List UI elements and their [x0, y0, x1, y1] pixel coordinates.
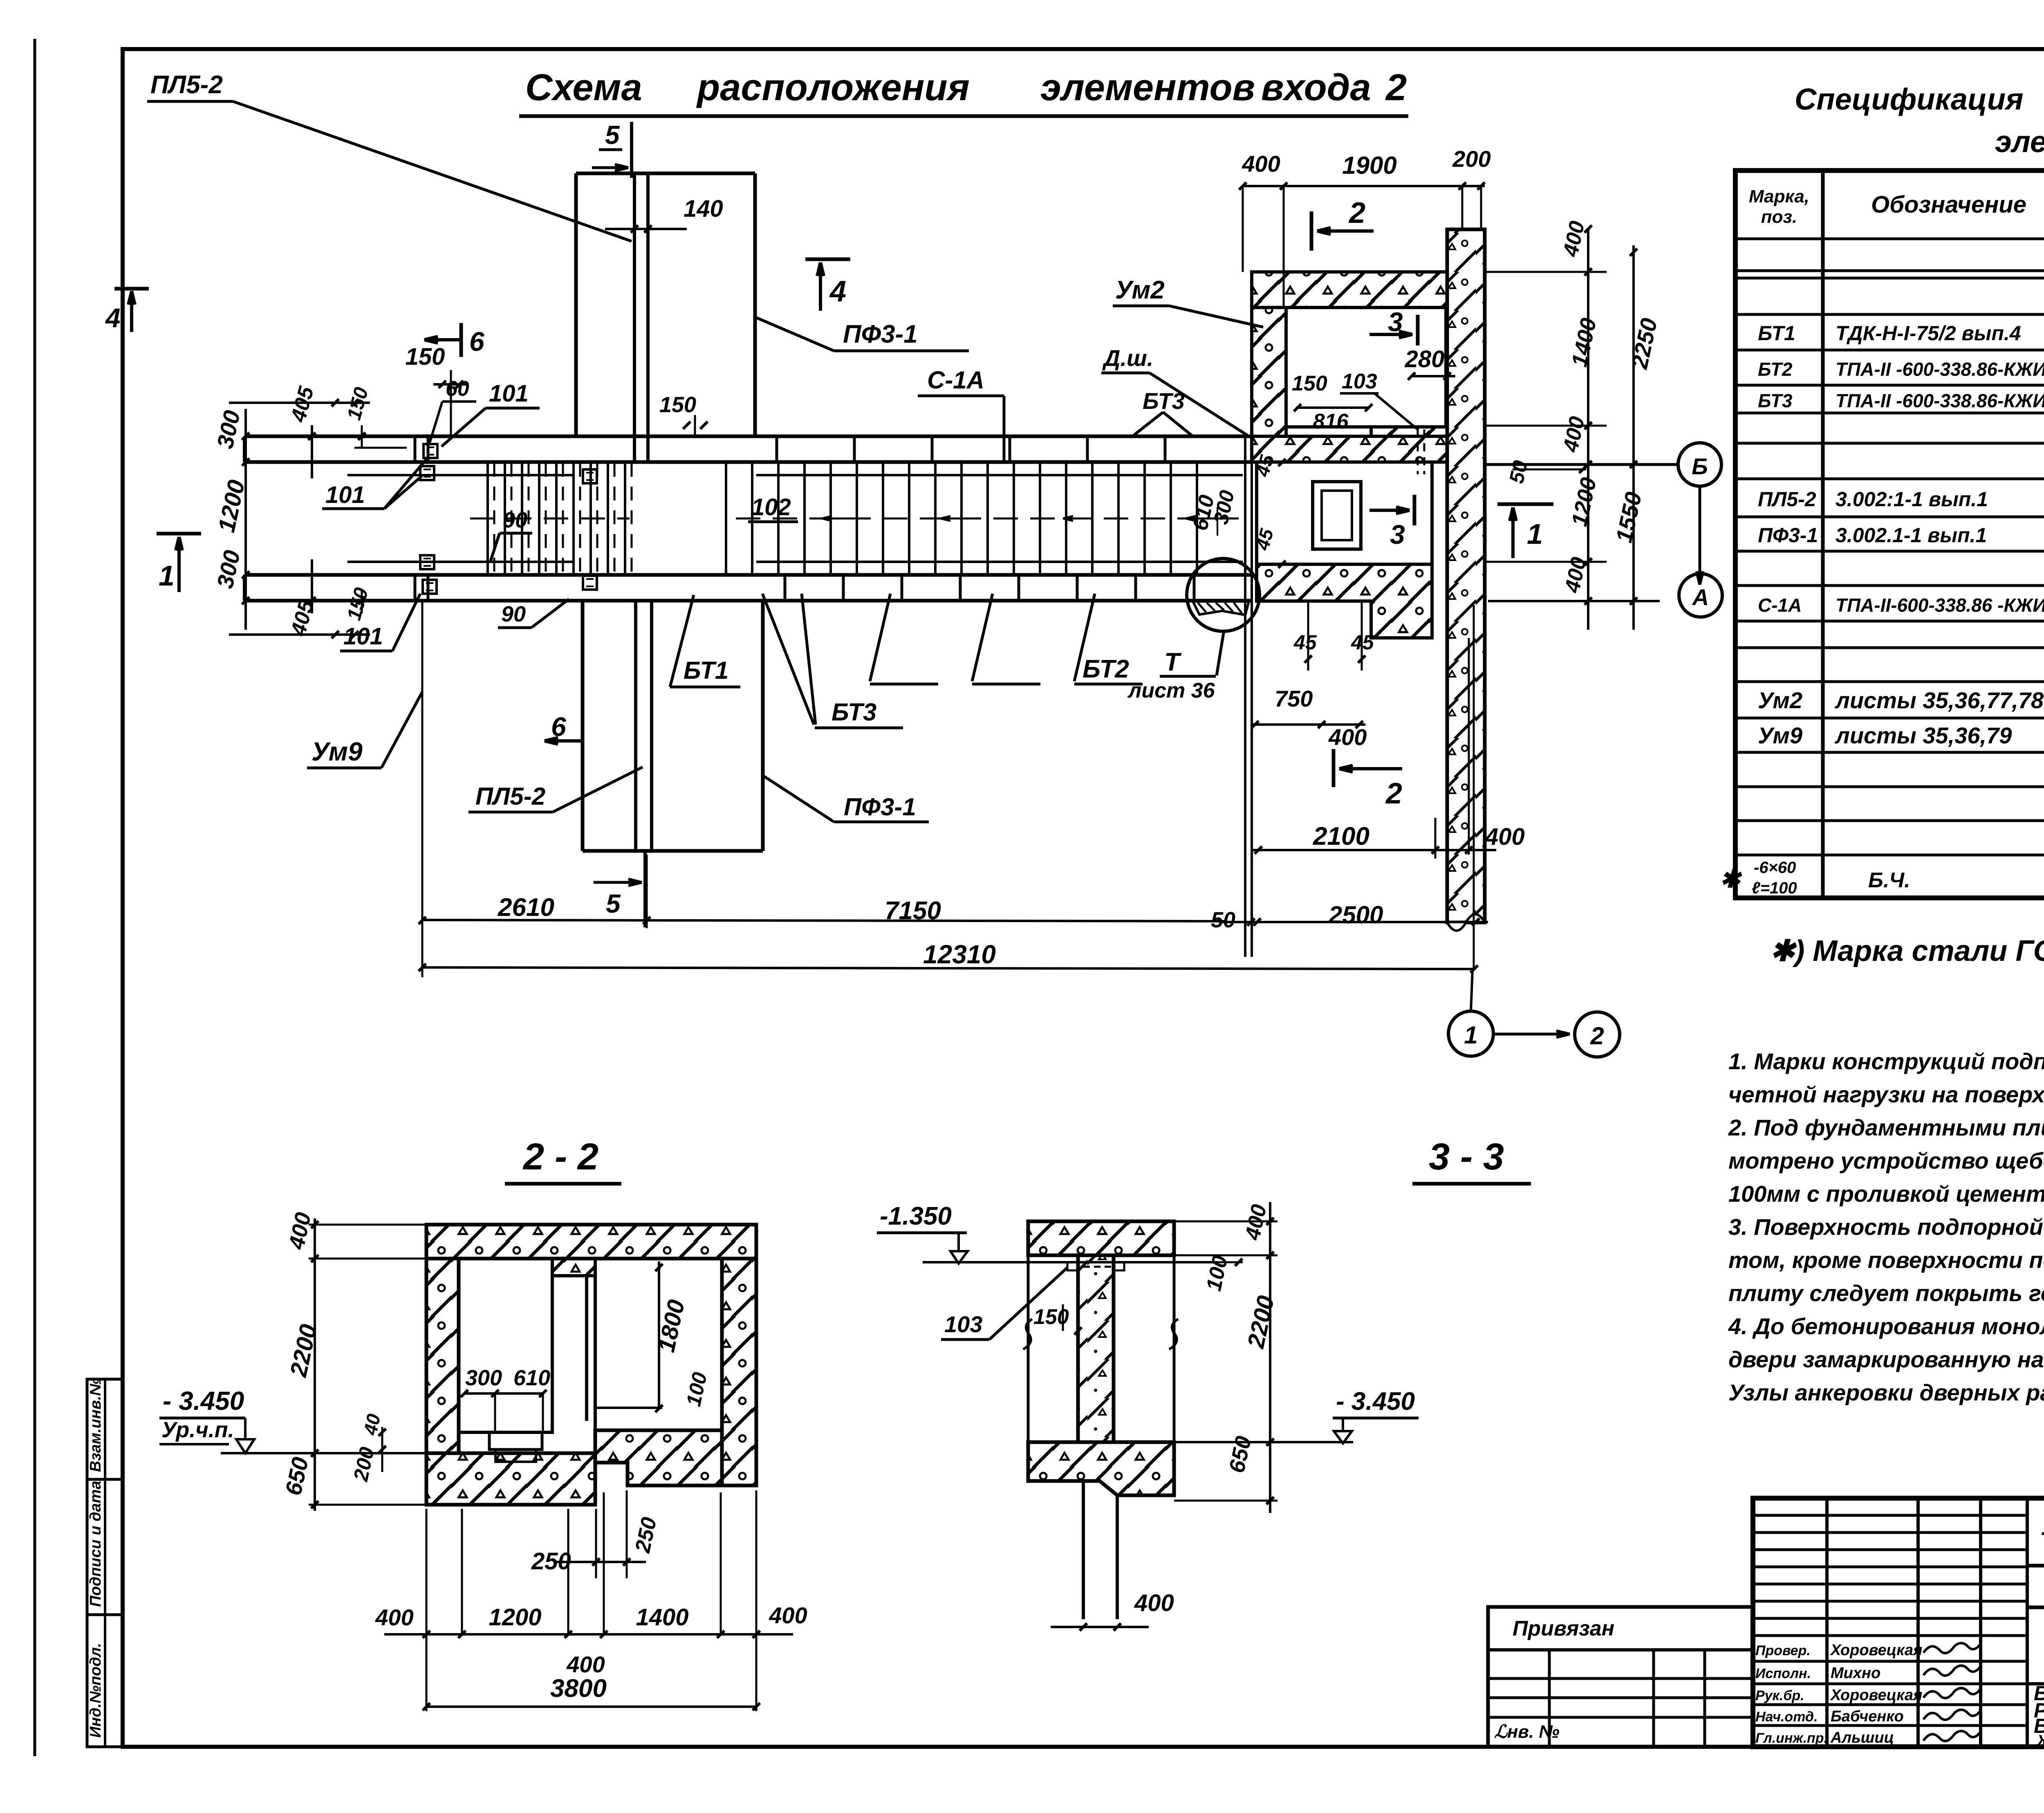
svg-text:Гл.инж.пр.: Гл.инж.пр. [1755, 1730, 1828, 1746]
svg-text:БТ3: БТ3 [831, 698, 876, 726]
2-2 bottom right band [595, 1430, 722, 1485]
svg-text:5: 5 [606, 889, 621, 918]
svg-text:280: 280 [1405, 346, 1445, 372]
svg-text:300: 300 [465, 1366, 502, 1390]
svg-text:12310: 12310 [923, 940, 996, 969]
svg-text:листы 35,36,79: листы 35,36,79 [1834, 723, 2012, 748]
svg-text:мотрено устройство щебеночной: мотрено устройство щебеночной подготовки… [1728, 1148, 2044, 1174]
section mark 4 left [114, 287, 149, 291]
3-3 side lines [1027, 1255, 1030, 1442]
section mark 3 top [1416, 315, 1420, 346]
svg-text:1: 1 [159, 560, 175, 592]
section mark 2 bottom [1332, 749, 1336, 787]
svg-text:Привязан: Привязан [1513, 1617, 1614, 1640]
svg-text:400: 400 [1242, 151, 1280, 177]
detail circle T [1187, 559, 1260, 631]
svg-text:400: 400 [769, 1602, 807, 1628]
3-3 top band [1028, 1221, 1174, 1255]
svg-text:50: 50 [1505, 458, 1532, 485]
svg-text:400: 400 [566, 1651, 605, 1677]
svg-text:140: 140 [684, 195, 723, 222]
section mark 2 top [1310, 211, 1313, 251]
3-3 bottom band [1028, 1442, 1174, 1495]
svg-text:400: 400 [1485, 823, 1525, 850]
svg-text:С-1А: С-1А [927, 366, 984, 394]
svg-text:ТП А-II -600- 338.86: ТП А-II -600- 338.86 [2040, 1528, 2044, 1554]
3-3 connector plates [1067, 1262, 1078, 1270]
2-2 right room [595, 1259, 722, 1430]
svg-text:103: 103 [944, 1311, 982, 1337]
dim line 400-1400-400-1200-400 [1587, 229, 1589, 630]
dim 400/1900/200 top [1243, 185, 1485, 187]
2-2 dim 1800 [658, 1261, 660, 1409]
Ум2 top wall [1252, 272, 1447, 307]
paper left edge line [34, 39, 36, 1756]
svg-text:БТ3: БТ3 [1758, 390, 1793, 411]
svg-text:4. До бетонирования монолитны: 4. До бетонирования монолитных стен зало… [1728, 1313, 2044, 1339]
2-2 left room [459, 1259, 552, 1432]
svg-text:750: 750 [1275, 686, 1313, 711]
svg-text:ТПА-II -600-338.86-КЖИ: ТПА-II -600-338.86-КЖИ [1836, 390, 2044, 411]
walkway top wall strip [244, 435, 1252, 438]
Ум2 wall over walkway [1252, 436, 1447, 462]
svg-text:ж.б. конструкциях: ж.б. конструкциях [2037, 1728, 2044, 1749]
svg-text:Исполн.: Исполн. [1755, 1666, 1811, 1681]
ПЛ5-2 plate edge lower [634, 601, 637, 851]
svg-text:2610: 2610 [498, 893, 554, 922]
5 section bottom [643, 853, 647, 927]
svg-text:лист 36: лист 36 [1127, 679, 1215, 702]
svg-text:Ум2: Ум2 [1115, 276, 1165, 304]
wall break squiggle [1447, 914, 1485, 931]
svg-text:Схема: Схема [525, 67, 642, 108]
svg-text:60: 60 [446, 377, 469, 401]
section mark 6 upper [459, 323, 463, 357]
expansion joint Д.ш. [1244, 436, 1246, 957]
svg-text:101: 101 [489, 380, 529, 407]
svg-text:102: 102 [751, 494, 791, 521]
Ум2 bottom wall [1257, 564, 1432, 638]
svg-text:Ур.ч.п.: Ур.ч.п. [161, 1418, 234, 1442]
svg-text:1400: 1400 [636, 1604, 688, 1631]
svg-text:3 - 3: 3 - 3 [1429, 1136, 1504, 1178]
svg-text:Альшиц: Альшиц [1830, 1729, 1894, 1746]
2-2 bottom left band [426, 1453, 595, 1505]
dim 2610 7150 [422, 920, 1226, 921]
svg-text:Узлы анкеровки дверных рам: Узлы анкеровки дверных рам см. листы 58÷… [1728, 1380, 2044, 1405]
svg-text:3.002:1-1 вып.1: 3.002:1-1 вып.1 [1836, 488, 1988, 511]
svg-text:150: 150 [406, 343, 445, 370]
svg-text:БТ3: БТ3 [1143, 388, 1185, 414]
svg-text:Инд.№подл.: Инд.№подл. [87, 1643, 104, 1738]
svg-text:Д.ш.: Д.ш. [1102, 345, 1153, 371]
2-2 dim 3800 [426, 1705, 756, 1708]
svg-text:БТ2: БТ2 [1758, 359, 1793, 380]
svg-text:1200: 1200 [489, 1604, 541, 1631]
2-2 right wall [722, 1259, 756, 1485]
title underline [519, 114, 1408, 118]
svg-text:Рук.бр.: Рук.бр. [1755, 1688, 1804, 1703]
svg-text:3800: 3800 [550, 1674, 607, 1703]
section mark 4 right [805, 258, 850, 261]
svg-text:7150: 7150 [885, 897, 941, 925]
svg-text:Нач.отд.: Нач.отд. [1755, 1709, 1818, 1725]
svg-text:Хоровецкая: Хоровецкая [1830, 1642, 1922, 1659]
svg-text:45: 45 [1293, 631, 1317, 654]
title block [1753, 1498, 2044, 1747]
2-2 partition lines [552, 1274, 587, 1277]
svg-text:БТ1: БТ1 [1758, 322, 1795, 345]
2-2 left wall [426, 1259, 459, 1453]
svg-text:Т: Т [1164, 648, 1182, 676]
svg-text:3. Поверхность подпорной стенк: 3. Поверхность подпорной стенки, соприка… [1728, 1214, 2044, 1240]
svg-text:2 - 2: 2 - 2 [522, 1136, 598, 1178]
svg-text:БТ2: БТ2 [1083, 655, 1129, 683]
svg-text:✱: ✱ [1720, 865, 1742, 893]
ПЛ5-2 plate edge [633, 173, 636, 462]
svg-text:103: 103 [1342, 370, 1377, 393]
svg-text:ℒнв. №: ℒнв. № [1494, 1722, 1560, 1742]
svg-text:400: 400 [1328, 724, 1367, 750]
dim 12310 [422, 967, 1475, 969]
lower corridor walls [1255, 462, 1258, 564]
svg-text:С-1А: С-1А [1758, 595, 1802, 616]
svg-text:расположения: расположения [696, 67, 970, 108]
2-2 bottom dims [384, 1633, 793, 1636]
svg-text:90: 90 [503, 508, 527, 532]
svg-text:2100: 2100 [1313, 822, 1369, 850]
stair flight 2 steps [725, 463, 727, 574]
2-2 partition step [552, 1259, 595, 1276]
svg-text:А: А [1692, 584, 1709, 610]
svg-text:ТПА-II-600-338.86 -КЖИ: ТПА-II-600-338.86 -КЖИ [1836, 595, 2044, 616]
svg-text:ПФ3-1: ПФ3-1 [843, 320, 918, 348]
flight 1 centerline [470, 518, 630, 520]
svg-text:1: 1 [1527, 518, 1543, 550]
svg-text:2: 2 [1590, 1022, 1604, 1050]
node circles 1 2 [1471, 970, 1472, 1011]
svg-text:ℓ=100: ℓ=100 [1752, 879, 1797, 897]
left margin stamp boxes [87, 1379, 123, 1747]
svg-text:2: 2 [1348, 197, 1365, 229]
2-2 top band [426, 1225, 756, 1259]
annex box Привязан [1488, 1607, 1753, 1747]
Ум2 left wall [1252, 307, 1286, 436]
svg-text:200: 200 [1452, 146, 1490, 172]
svg-text:ТДК-Н-I-75/2 вып.4: ТДК-Н-I-75/2 вып.4 [1836, 322, 2021, 345]
svg-text:поз.: поз. [1761, 207, 1797, 227]
svg-text:1. Марки конструкций подпорной: 1. Марки конструкций подпорной стенки пр… [1728, 1048, 2044, 1074]
signatures squiggles [1923, 1643, 1981, 1653]
svg-text:4: 4 [105, 303, 121, 333]
building wall plan [1447, 229, 1485, 922]
3-3 break squiggles [1023, 1319, 1032, 1349]
svg-text:150: 150 [659, 393, 696, 417]
svg-text:100мм с проливкой цементным: 100мм с проливкой цементным раствором. [1728, 1181, 2044, 1207]
svg-text:- 3.450: - 3.450 [1336, 1387, 1415, 1416]
lower wall ПЛ5-2/ПФ3-1 plan [581, 601, 585, 851]
svg-text:2: 2 [1385, 777, 1402, 810]
svg-text:элементов: элементов [1995, 125, 2044, 159]
svg-text:✱) Марка стали ГОСТ 380-71✱ В: ✱) Марка стали ГОСТ 380-71✱ ВСт3пс6 . [1770, 935, 2044, 967]
svg-text:Ум9: Ум9 [312, 737, 363, 766]
walkway bottom wall strip [244, 573, 1252, 577]
svg-text:- 3.450: - 3.450 [163, 1386, 244, 1416]
connector plates 101/90 [424, 444, 437, 458]
svg-text:двери замаркированную на: двери замаркированную на чертежах марки … [1728, 1346, 2044, 1372]
svg-text:101: 101 [325, 482, 365, 508]
connector dashed [1417, 429, 1419, 474]
2-2 pedestal [489, 1432, 542, 1450]
svg-text:90: 90 [501, 602, 526, 626]
svg-text:Ум9: Ум9 [1758, 723, 1802, 748]
svg-text:2. Под фундаментными плитами п: 2. Под фундаментными плитами подпорной с… [1728, 1115, 2044, 1140]
section mark 3 bottom [1413, 495, 1416, 525]
left end dim lines [229, 402, 370, 404]
block joints [414, 436, 417, 462]
svg-text:6: 6 [551, 711, 567, 742]
section mark 1 right [1497, 503, 1553, 506]
svg-text:Провер.: Провер. [1755, 1643, 1811, 1658]
3-3 dim 400 stem [1051, 1626, 1149, 1628]
2-2 left dim 400 2200 650 [314, 1218, 316, 1511]
svg-text:Ум2: Ум2 [1758, 687, 1802, 713]
svg-text:Подписи и дата: Подписи и дата [87, 1481, 104, 1607]
svg-text:Б: Б [1692, 453, 1708, 479]
svg-text:3: 3 [1390, 519, 1405, 550]
svg-text:БТ1: БТ1 [684, 657, 728, 684]
svg-text:том, кроме поверхности подгото: том, кроме поверхности подготовки под фу… [1728, 1247, 2044, 1273]
section mark 6 lower [581, 717, 585, 763]
svg-text:ТПА-II -600-338.86-КЖИ: ТПА-II -600-338.86-КЖИ [1836, 359, 2044, 380]
svg-text:4: 4 [829, 275, 846, 308]
Ум2 wall hatched ring [1252, 272, 1447, 436]
svg-text:Марка,: Марка, [1749, 186, 1809, 206]
svg-text:ПЛ5-2: ПЛ5-2 [150, 71, 223, 99]
svg-text:400: 400 [1134, 1590, 1174, 1616]
svg-text:-1.350: -1.350 [880, 1202, 952, 1230]
stair flight 1 steps [486, 463, 489, 574]
Ум2 room opening [1286, 307, 1446, 427]
svg-text:четной нагрузки на поверхности: четной нагрузки на поверхности грунта ра… [1728, 1082, 2044, 1107]
svg-text:ПЛ5-2: ПЛ5-2 [475, 783, 545, 810]
svg-text:610: 610 [513, 1366, 550, 1390]
svg-text:Бабченко: Бабченко [1831, 1708, 1904, 1725]
svg-text:Обозначение: Обозначение [1871, 191, 2026, 218]
svg-text:400: 400 [375, 1604, 413, 1630]
svg-text:элементов: элементов [1040, 67, 1255, 108]
3-3 stem [1082, 1481, 1085, 1619]
dim line 2250 1550 [1632, 245, 1635, 630]
svg-text:Михно: Михно [1831, 1665, 1880, 1682]
left vertical dims 300/1200/300 [244, 409, 247, 630]
svg-text:2: 2 [1385, 67, 1407, 108]
svg-text:5: 5 [605, 120, 620, 150]
flight 2 centerline [736, 518, 1241, 520]
svg-text:ПФ3-1: ПФ3-1 [1758, 524, 1818, 547]
svg-text:-6×60: -6×60 [1754, 859, 1796, 877]
svg-text:ПЛ5-2: ПЛ5-2 [1758, 488, 1816, 511]
svg-text:101: 101 [343, 623, 383, 650]
3-3 middle wall [1078, 1255, 1114, 1442]
svg-text:3: 3 [1388, 307, 1403, 337]
svg-text:816: 816 [1313, 410, 1349, 433]
3-3 right dims [1269, 1202, 1271, 1513]
door frame plan [1313, 482, 1361, 549]
svg-text:Хоровецкая: Хоровецкая [1830, 1687, 1922, 1704]
axis Б line [1485, 463, 1678, 466]
svg-text:150: 150 [1292, 372, 1327, 395]
svg-text:ПФ3-1: ПФ3-1 [844, 793, 916, 821]
section mark 1 left [157, 532, 201, 536]
svg-text:1: 1 [1464, 1021, 1477, 1049]
svg-text:Б.Ч.: Б.Ч. [1868, 868, 1910, 892]
svg-text:входа: входа [1261, 67, 1371, 108]
plate inner line [347, 474, 574, 476]
Ум2 sill wall [1371, 427, 1447, 436]
svg-text:6: 6 [469, 326, 485, 357]
svg-text:1900: 1900 [1342, 152, 1396, 179]
upper wall ПЛ5-2/ПФ3-1 plan [576, 172, 755, 175]
specification table grid [1735, 171, 2044, 898]
svg-text:плиту следует покрыть горяч: плиту следует покрыть горячим битумом за… [1728, 1280, 2044, 1306]
svg-text:2500: 2500 [1328, 901, 1383, 929]
svg-text:листы 35,36,77,78: листы 35,36,77,78 [1834, 687, 2044, 713]
svg-text:3.002.1-1 вып.1: 3.002.1-1 вып.1 [1836, 524, 1987, 547]
extension line / Ум9 joint [421, 601, 424, 977]
svg-text:Спецификация: Спецификация [1795, 82, 2024, 116]
svg-text:Взам.инв.№: Взам.инв.№ [87, 1378, 104, 1472]
